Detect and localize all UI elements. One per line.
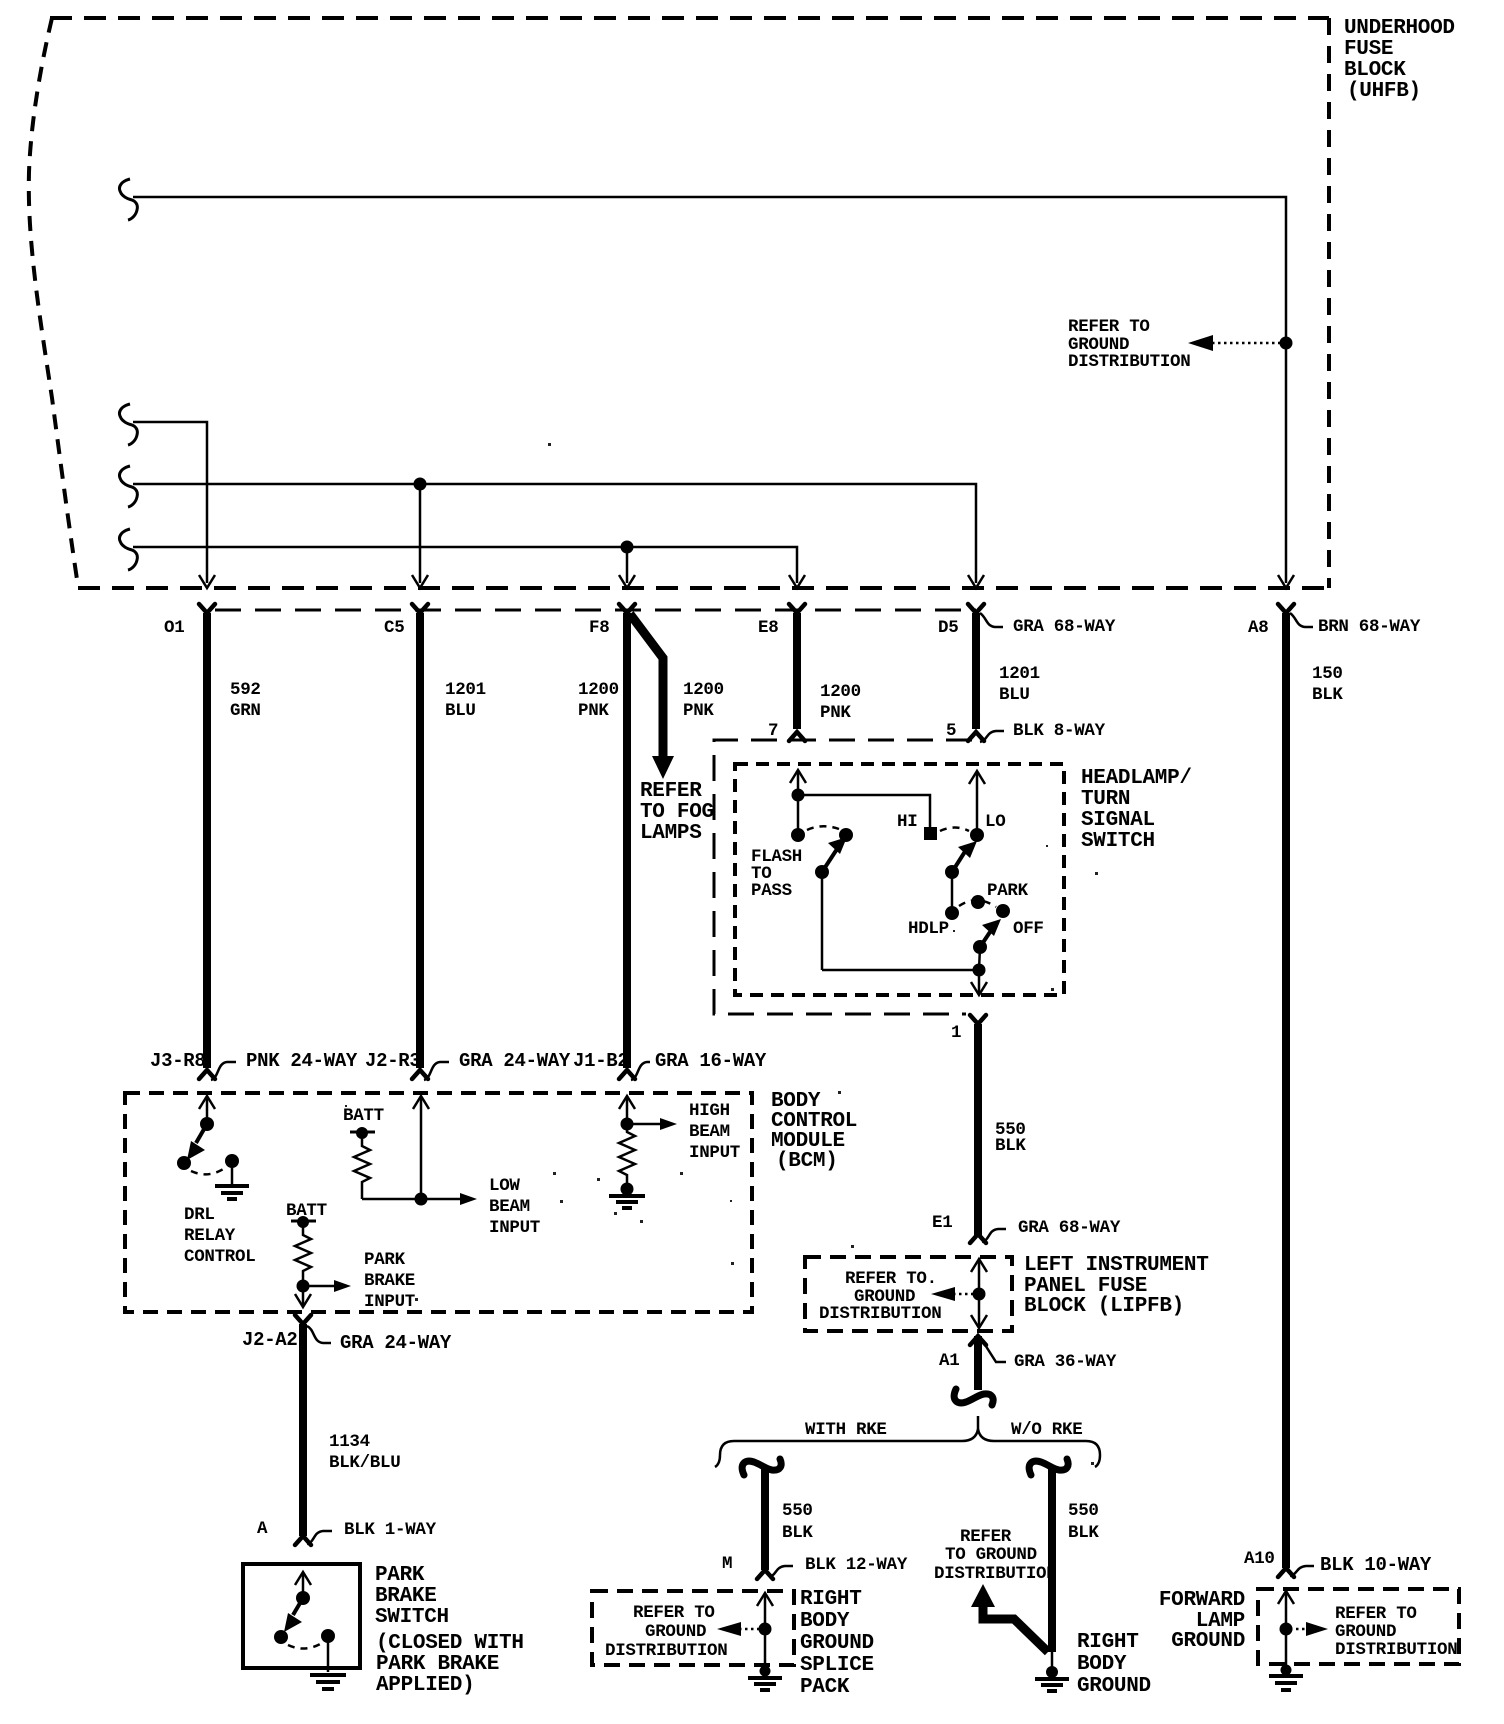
(CLOSED WITH PARK BRAKE APPLIED) label (376, 1632, 524, 1697)
DRL input arrow (199, 1096, 215, 1124)
ground (high beam) (609, 1196, 645, 1208)
svg-text:PARK: PARK (364, 1250, 406, 1270)
LIPFB dashed box (805, 1257, 1012, 1331)
OFF contact dot (996, 904, 1010, 918)
LIPFB name text (1024, 1254, 1209, 1318)
svg-text:RELAY: RELAY (184, 1226, 236, 1246)
arrow to REFER TO GROUND DISTRIBUTION (UHFB) (1188, 335, 1280, 351)
value label 550 BLK right branch (1068, 1501, 1099, 1543)
svg-text:592: 592 (230, 680, 261, 700)
RIGHT BODY GROUND SPLICE PACK label (800, 1588, 874, 1699)
svg-text:INPUT: INPUT (689, 1143, 740, 1163)
svg-text:BODY: BODY (1077, 1653, 1127, 1676)
svg-text:BLK: BLK (1312, 685, 1343, 705)
UHFB box right edge (1327, 18, 1331, 588)
pin label 1 (951, 1023, 961, 1043)
svg-text:REFER TO: REFER TO (1335, 1604, 1417, 1624)
LIPFB node dot (973, 1288, 986, 1301)
headlamp blade with arrow (952, 841, 977, 872)
A10 node dot (1280, 1623, 1293, 1636)
svg-text:LAMPS: LAMPS (640, 822, 702, 845)
HIGH BEAM INPUT arrow (627, 1118, 677, 1130)
pin label 7 (768, 721, 778, 741)
svg-text:DISTRIBUTION: DISTRIBUTION (934, 1564, 1056, 1584)
connector D5 terminal fork (968, 604, 984, 613)
headlamp blade pivot dot (945, 865, 959, 879)
park brake output arrow down (295, 1286, 311, 1307)
wire squiggle2 to O1 drop (133, 422, 207, 583)
LIPFB refer arrow left (931, 1287, 975, 1301)
svg-text:A10: A10 (1244, 1549, 1275, 1569)
value label 592 GRN (230, 680, 261, 721)
value label 1134 BLK/BLU (329, 1432, 400, 1473)
svg-text:GRA 16-WAY: GRA 16-WAY (655, 1050, 767, 1072)
park/off blade with arrow (980, 919, 1001, 947)
svg-text:REFER TO: REFER TO (633, 1603, 715, 1623)
svg-text:550: 550 (1068, 1501, 1099, 1521)
connector E1 terminal fork (970, 1234, 986, 1243)
park brake blade lower dot (274, 1630, 288, 1644)
resistor (high beam) (619, 1124, 635, 1184)
svg-text:BLK/BLU: BLK/BLU (329, 1453, 400, 1473)
dashed linkage DRL (191, 1168, 225, 1174)
headlamp switch input arrow (pin 5 side) (969, 771, 985, 835)
svg-text:D5: D5 (938, 618, 958, 638)
svg-text:O1: O1 (164, 618, 184, 638)
svg-text:BLU: BLU (445, 701, 476, 721)
leader BRN 68-WAY at A8 (1290, 613, 1421, 637)
PARK BRAKE INPUT label (364, 1250, 415, 1312)
FLASH TO PASS label (751, 847, 802, 901)
svg-text:1: 1 (951, 1023, 961, 1043)
svg-text:1201: 1201 (445, 680, 486, 700)
svg-text:WITH RKE: WITH RKE (805, 1420, 887, 1440)
BCM name text (771, 1090, 857, 1173)
svg-text:(CLOSED WITH: (CLOSED WITH (376, 1632, 524, 1655)
value label 550 BLK left branch (782, 1501, 813, 1543)
svg-text:1201: 1201 (999, 664, 1040, 684)
leader GRA 36-WAY at A1 (982, 1340, 1117, 1372)
leader BLK 1-WAY (307, 1520, 437, 1544)
node high beam (621, 1118, 634, 1131)
svg-text:150: 150 (1312, 664, 1343, 684)
pin label C5 (384, 618, 404, 638)
leader BLK 8-WAY at pin 5 (980, 721, 1106, 742)
BCM connector J3-R8 terminal fork (199, 1070, 215, 1079)
wire 550 BLK (w/o RKE branch) (1048, 1468, 1056, 1652)
svg-text:SIGNAL: SIGNAL (1081, 809, 1155, 832)
svg-text:BATT: BATT (343, 1106, 384, 1126)
leader BLK 12-WAY at M (769, 1555, 908, 1577)
LO contact dot (970, 828, 984, 842)
svg-text:LOW: LOW (489, 1176, 520, 1196)
svg-text:(BCM): (BCM) (776, 1150, 838, 1173)
PARK BRAKE SWITCH box (243, 1564, 360, 1668)
pin label J2-A2 (242, 1329, 298, 1351)
svg-text:HDLP: HDLP (908, 919, 949, 939)
svg-text:1134: 1134 (329, 1432, 370, 1452)
splice pack internal wire arrow (757, 1593, 773, 1668)
wire break squiggle 3 (119, 466, 137, 507)
svg-text:PNK 24-WAY: PNK 24-WAY (246, 1050, 358, 1072)
splice pack dashed box (592, 1591, 794, 1665)
svg-text:PARK: PARK (375, 1564, 425, 1587)
switch inner dashed box (735, 764, 1064, 995)
svg-text:DISTRIBUTION: DISTRIBUTION (1068, 352, 1190, 372)
svg-text:PACK: PACK (800, 1676, 850, 1699)
svg-text:PARK: PARK (987, 881, 1029, 901)
svg-text:A1: A1 (939, 1351, 959, 1371)
svg-text:A8: A8 (1248, 618, 1268, 638)
ground (forward lamp) (1269, 1665, 1303, 1691)
BCM connector J1-B2 terminal fork (619, 1070, 635, 1079)
svg-text:BLK 1-WAY: BLK 1-WAY (344, 1520, 437, 1540)
RIGHT BODY GROUND label (1077, 1631, 1151, 1698)
svg-text:GROUND: GROUND (1335, 1622, 1396, 1642)
high beam ground dot (621, 1183, 634, 1196)
leader GRA 68-WAY at E1 (982, 1218, 1121, 1242)
splice refer arrow left (717, 1622, 761, 1636)
FORWARD LAMP GROUND label (1159, 1589, 1245, 1653)
svg-text:E1: E1 (932, 1213, 952, 1233)
svg-text:5: 5 (946, 721, 956, 741)
ground (park brake switch) (310, 1675, 346, 1689)
pin label J2-R3 (365, 1050, 421, 1072)
value label 1200 PNK branch (683, 680, 724, 721)
svg-text:J2-R3: J2-R3 (365, 1050, 421, 1072)
wire pivot to bottom rail (821, 872, 824, 970)
leader GRA 24-WAY (424, 1050, 571, 1080)
UHFB box top edge (50, 16, 1329, 20)
wire break squiggle 4 (119, 529, 137, 570)
connector A terminal fork (295, 1536, 311, 1545)
svg-text:REFER TO: REFER TO (1068, 317, 1150, 337)
connector dash line under UHFB (215, 609, 976, 612)
svg-text:TURN: TURN (1081, 788, 1130, 811)
BATT label upper (343, 1106, 384, 1126)
node junction feeding C5 (414, 478, 427, 584)
REFER TO GROUND DISTRIBUTION text (splice pack) (605, 1603, 727, 1661)
svg-text:BLK 12-WAY: BLK 12-WAY (805, 1555, 908, 1575)
svg-text:LO: LO (985, 812, 1005, 832)
output node dot (973, 964, 986, 977)
wire squiggle4 to E8 drop (133, 547, 797, 583)
HI label (897, 812, 917, 832)
svg-text:DISTRIBUTION: DISTRIBUTION (1335, 1640, 1457, 1660)
DRL throw dot (225, 1154, 239, 1168)
svg-text:GROUND: GROUND (645, 1622, 706, 1642)
leader GRA 24-WAY at J2-A2 (307, 1326, 452, 1354)
svg-text:GRA 24-WAY: GRA 24-WAY (459, 1050, 571, 1072)
svg-text:M: M (722, 1554, 732, 1574)
connector C5 terminal fork (412, 604, 428, 613)
PARK contact dot (971, 895, 985, 909)
svg-text:REFER: REFER (640, 780, 702, 803)
DRL switch blade with arrow (187, 1124, 207, 1160)
UHFB label text (1344, 17, 1455, 103)
DRL ground stub (231, 1161, 234, 1184)
svg-text:BRN 68-WAY: BRN 68-WAY (1318, 617, 1421, 637)
svg-text:A: A (257, 1519, 268, 1539)
pin label A (257, 1519, 268, 1539)
WITH RKE label (805, 1420, 887, 1440)
leader PNK 24-WAY (211, 1050, 358, 1080)
wire A1 stub (974, 1336, 982, 1390)
switch name text (1081, 767, 1192, 853)
LOW BEAM INPUT label (489, 1176, 540, 1238)
refer-to-ground elbow arrow (right body) (971, 1584, 1048, 1652)
svg-text:FORWARD: FORWARD (1159, 1589, 1245, 1612)
svg-text:INPUT: INPUT (364, 1292, 415, 1312)
dashed linkage flash-to-pass (807, 826, 839, 830)
node junction feeding F8 (621, 541, 634, 584)
svg-text:DISTRIBUTION: DISTRIBUTION (819, 1304, 941, 1324)
UHFB box left wavy edge (29, 18, 78, 586)
wire from squiggle 1 to A8 drop (150 BLK feed) (133, 197, 1286, 583)
wire curl at A1 stub end (954, 1389, 993, 1405)
svg-text:TO GROUND: TO GROUND (945, 1545, 1037, 1565)
wire park blade to output node (979, 947, 980, 970)
svg-text:BRAKE: BRAKE (375, 1585, 437, 1608)
svg-text:J3-R8: J3-R8 (150, 1050, 206, 1072)
svg-text:SPLICE: SPLICE (800, 1654, 874, 1677)
BATT terminal bar lower (291, 1216, 316, 1228)
connector F8 terminal fork (619, 604, 635, 613)
park brake switch input arrow (295, 1572, 311, 1598)
wire curl at W/O RKE branch top (1029, 1459, 1068, 1475)
svg-text:PNK: PNK (578, 701, 609, 721)
leader BLK 10-WAY at A10 (1290, 1554, 1432, 1576)
wire 1201 BLU (C5 to BCM J2-R3) (416, 613, 424, 1068)
svg-text:RIGHT: RIGHT (800, 1588, 862, 1611)
DRL blade lower dot (177, 1156, 191, 1170)
node park brake (297, 1280, 310, 1293)
park brake switch blade with arrow (284, 1598, 303, 1632)
svg-text:GROUND: GROUND (800, 1632, 874, 1655)
A10 refer arrow right (1290, 1622, 1328, 1636)
resistor (low beam pull-up) (354, 1133, 370, 1199)
switch output arrow down (971, 970, 987, 995)
REFER TO GROUND DISTRIBUTION text (UHFB) (1068, 317, 1190, 372)
svg-text:1200: 1200 (820, 682, 861, 702)
svg-text:HIGH: HIGH (689, 1101, 730, 1121)
pin label D5 (938, 618, 958, 638)
svg-text:BLK: BLK (1068, 1523, 1099, 1543)
pin label A8 (1248, 618, 1268, 638)
wire 550 BLK (with RKE branch) (761, 1468, 769, 1570)
PARK label (987, 881, 1029, 901)
dashed linkage HI-LO (940, 828, 969, 832)
svg-text:PNK: PNK (820, 703, 851, 723)
pin label O1 (164, 618, 184, 638)
node low beam (415, 1193, 428, 1206)
connector O1 terminal fork (199, 604, 215, 613)
svg-text:BODY: BODY (800, 1610, 850, 1633)
wire 550 BLK (switch pin 1 to E1) (974, 1024, 982, 1237)
REFER TO GROUND DISTRIBUTION text (LIPFB) (819, 1269, 941, 1324)
dashed linkage HDLP-PARK (959, 900, 996, 907)
wire 1201 BLU (D5 to switch pin 5) (972, 613, 980, 729)
pin label E8 (758, 618, 778, 638)
svg-text:F8: F8 (589, 618, 609, 638)
ground (splice pack) (748, 1666, 782, 1691)
dashed linkage park brake (288, 1643, 322, 1649)
svg-text:GRN: GRN (230, 701, 261, 721)
svg-text:SWITCH: SWITCH (1081, 830, 1155, 853)
value label 1201 BLU at D5 (999, 664, 1040, 705)
pin label A10 (1244, 1549, 1275, 1569)
svg-text:BLK: BLK (995, 1136, 1026, 1156)
value label 1200 PNK at E8 (820, 682, 861, 723)
FLASH TO PASS contact dot (791, 828, 805, 842)
svg-text:GRA 68-WAY: GRA 68-WAY (1018, 1218, 1121, 1238)
svg-text:1200: 1200 (578, 680, 619, 700)
dimmer blade with arrow (822, 837, 847, 872)
wire 592 GRN (O1 to BCM J3-R8) (203, 613, 211, 1068)
wire 1200 PNK fog lamp branch (630, 614, 674, 779)
park brake ground stub (327, 1636, 330, 1672)
svg-text:REFER: REFER (960, 1527, 1012, 1547)
wire blade pivot to HDLP contact (951, 872, 954, 913)
svg-text:RIGHT: RIGHT (1077, 1631, 1139, 1654)
value label 550 BLK (995, 1120, 1026, 1156)
W/O RKE label (1011, 1420, 1082, 1440)
wire break squiggle 1 (119, 179, 137, 220)
LOW BEAM INPUT arrow (421, 1193, 477, 1205)
svg-text:(UHFB): (UHFB) (1347, 80, 1421, 103)
UHFB box bottom edge (78, 586, 1329, 590)
svg-text:GROUND: GROUND (1171, 1630, 1245, 1653)
low beam input arrow (J2-R3 line) (413, 1096, 429, 1199)
leader GRA 16-WAY (631, 1050, 767, 1080)
svg-text:J2-A2: J2-A2 (242, 1329, 298, 1351)
svg-text:INPUT: INPUT (489, 1218, 540, 1238)
svg-text:PASS: PASS (751, 881, 792, 901)
HDLP contact dot (945, 906, 959, 920)
svg-text:W/O RKE: W/O RKE (1011, 1420, 1082, 1440)
connector A10 terminal fork (1278, 1568, 1294, 1577)
svg-text:BEAM: BEAM (489, 1197, 530, 1217)
pin label 5 (946, 721, 956, 741)
svg-text:C5: C5 (384, 618, 404, 638)
svg-text:550: 550 (782, 1501, 813, 1521)
switch pin 5 terminal fork (968, 732, 984, 741)
dimmer blade pivot dot (815, 865, 829, 879)
wire resistor to low-beam node (362, 1198, 421, 1201)
BCM dashed box (125, 1093, 752, 1312)
REFER TO GROUND DISTRIBUTION text (forward lamp) (1335, 1604, 1457, 1660)
PARK BRAKE INPUT arrow (303, 1280, 351, 1292)
svg-text:BLK 10-WAY: BLK 10-WAY (1320, 1554, 1432, 1576)
PARK BRAKE SWITCH label (375, 1564, 449, 1629)
LO label (985, 812, 1005, 832)
value label 150 BLK (1312, 664, 1343, 705)
pin label M (722, 1554, 732, 1574)
high beam input arrow (J1-B2 line) (619, 1096, 635, 1124)
ground (right body) (1035, 1652, 1069, 1691)
A10 internal wire arrow (1278, 1591, 1294, 1666)
svg-text:HEADLAMP/: HEADLAMP/ (1081, 767, 1192, 790)
REFER TO GROUND DISTRIBUTION text (right body) (934, 1527, 1056, 1584)
switch dimmer input arrow (pin 7 side) (790, 770, 806, 835)
svg-text:HI: HI (897, 812, 917, 832)
OFF label (1013, 919, 1044, 939)
svg-text:BEAM: BEAM (689, 1122, 730, 1142)
svg-text:GRA 24-WAY: GRA 24-WAY (340, 1332, 452, 1354)
resistor (park brake pull-up) (295, 1222, 311, 1284)
HIGH BEAM INPUT label (689, 1101, 740, 1163)
DRL RELAY CONTROL label (184, 1205, 255, 1267)
HDLP label (908, 919, 949, 939)
svg-text:FUSE: FUSE (1344, 38, 1393, 61)
svg-text:GRA 68-WAY: GRA 68-WAY (1013, 617, 1116, 637)
DRL switch top dot (200, 1117, 214, 1131)
BCM connector J2-R3 terminal fork (412, 1070, 428, 1079)
splice pack node dot (759, 1623, 772, 1636)
svg-text:BLK: BLK (782, 1523, 813, 1543)
wire curl at WITH RKE branch top (742, 1459, 781, 1475)
REFER TO FOG LAMPS text (640, 780, 714, 845)
svg-text:BLOCK (LIPFB): BLOCK (LIPFB) (1024, 1295, 1184, 1318)
svg-text:SWITCH: SWITCH (375, 1606, 449, 1629)
pin label A1 (939, 1351, 959, 1371)
svg-text:BRAKE: BRAKE (364, 1271, 415, 1291)
node junction on A8 feed (1280, 337, 1293, 350)
wire break squiggle 2 (119, 404, 137, 445)
wire squiggle3 to D5 drop (133, 484, 976, 583)
value label 1201 BLU (445, 680, 486, 721)
value label 1200 PNK left (578, 680, 619, 721)
connector A1 terminal fork (970, 1336, 986, 1345)
switch outer dashed boundary (714, 740, 972, 1014)
RKE option brace (715, 1416, 1100, 1467)
svg-text:BLK 8-WAY: BLK 8-WAY (1013, 721, 1106, 741)
svg-text:CONTROL: CONTROL (184, 1247, 255, 1267)
wire 1200 PNK (F8 to BCM J1-B2) (623, 613, 631, 1068)
flash-to-pass throw dot (839, 828, 853, 842)
arrowheads at UHFB bottom edge (199, 575, 215, 588)
svg-text:UNDERHOOD: UNDERHOOD (1344, 17, 1455, 40)
forward lamp ground dashed box (1258, 1589, 1459, 1664)
svg-text:GRA 36-WAY: GRA 36-WAY (1014, 1352, 1117, 1372)
scan noise specks (345, 443, 1098, 1465)
switch pin 7 terminal fork (789, 732, 805, 741)
wire 150 BLK (A8 to A10) (1282, 613, 1290, 1568)
svg-text:E8: E8 (758, 618, 778, 638)
svg-text:APPLIED): APPLIED) (376, 1674, 474, 1697)
svg-text:BLU: BLU (999, 685, 1030, 705)
pin label E1 (932, 1213, 952, 1233)
svg-text:BLOCK: BLOCK (1344, 59, 1406, 82)
connector E8 terminal fork (789, 604, 805, 613)
BATT terminal bar upper (350, 1127, 375, 1139)
BCM connector J2-A2 terminal fork (295, 1315, 311, 1324)
svg-text:J1-B2: J1-B2 (573, 1050, 629, 1072)
svg-text:DRL: DRL (184, 1205, 215, 1225)
pin label F8 (589, 618, 609, 638)
park brake switch top dot (296, 1591, 310, 1605)
park/off blade pivot dot (973, 940, 987, 954)
wire to HI contact (798, 795, 930, 827)
switch bottom rail (822, 969, 979, 972)
park brake throw dot (321, 1629, 335, 1643)
LIPFB internal wire with arrows (971, 1259, 987, 1328)
connector A8 terminal fork (1278, 604, 1294, 613)
svg-text:PNK: PNK (683, 701, 714, 721)
switch pin 1 terminal fork (970, 1015, 986, 1024)
svg-text:1200: 1200 (683, 680, 724, 700)
svg-text:OFF: OFF (1013, 919, 1044, 939)
